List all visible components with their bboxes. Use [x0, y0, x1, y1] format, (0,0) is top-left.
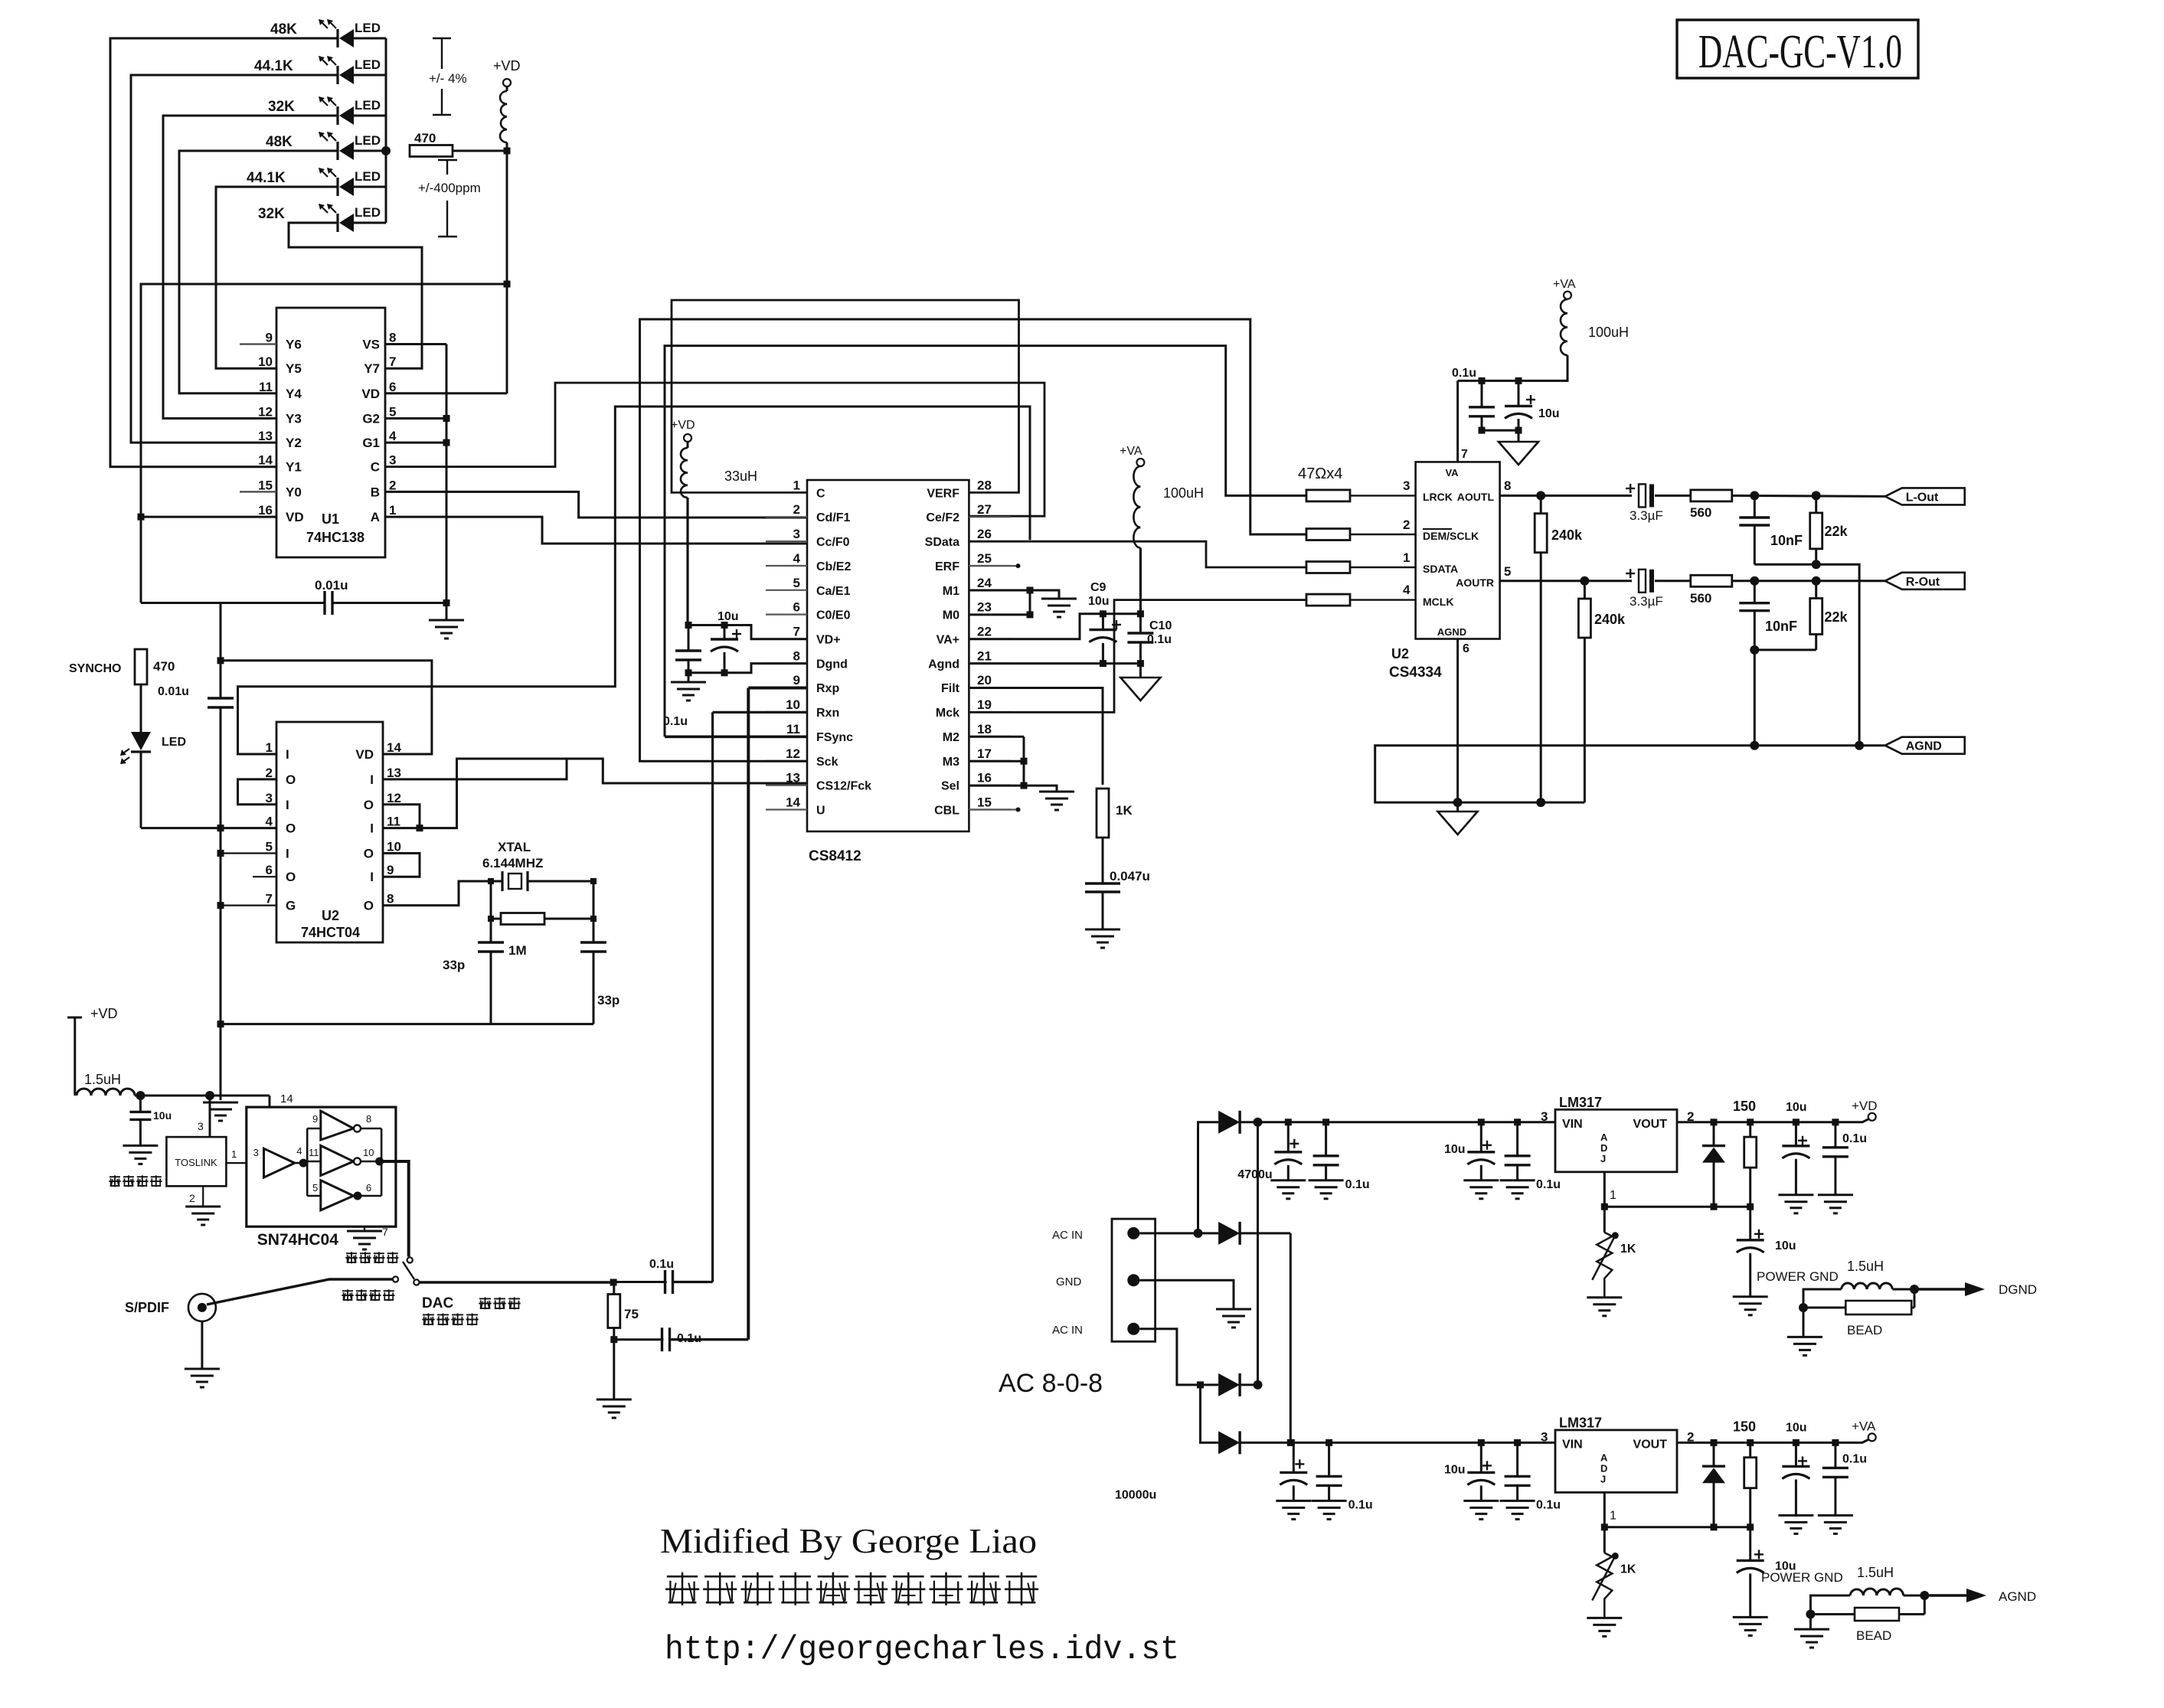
ground (U1 bypass): [429, 603, 464, 639]
text POWER GND (DGND): [1757, 1269, 1839, 1284]
resistor 1K (Filt): [1097, 789, 1133, 838]
svg-text:Y3: Y3: [286, 412, 302, 426]
capacitor 0.1u (a): [1316, 1442, 1373, 1511]
capacitor 10u (VD+): [711, 610, 741, 673]
svg-text:AGND: AGND: [1999, 1589, 2036, 1604]
svg-text:1.5uH: 1.5uH: [1857, 1565, 1894, 1580]
regulator LM317: [1541, 1095, 1694, 1172]
wire U2 pin13 riser: [383, 759, 567, 779]
op-amp U2 CS4334 body: [1416, 462, 1500, 638]
ferrite BEAD (AGND): [1806, 1591, 1929, 1643]
wire Y1 to 48K row1: [110, 38, 276, 467]
inductor 1.5uH: [77, 1072, 135, 1096]
svg-text:7: 7: [382, 1226, 388, 1238]
capacitor 0.047u: [1085, 838, 1150, 929]
wire to 560 L: [1655, 495, 1691, 497]
svg-text:3.3µF: 3.3µF: [1630, 508, 1663, 523]
svg-text:LED: LED: [355, 57, 381, 72]
terminal +VA: [1852, 1419, 1876, 1441]
svg-text:BEAD: BEAD: [1847, 1323, 1882, 1337]
+VA terminal (CS8412): [1120, 445, 1144, 466]
svg-text:C0/E0: C0/E0: [816, 609, 851, 622]
op-amp U1 74HC138 body: [276, 308, 385, 557]
svg-text:4: 4: [1403, 583, 1411, 597]
resistor 75: [608, 1282, 639, 1343]
CS4334 labels: [1423, 467, 1494, 638]
wire VA pin7: [1456, 380, 1459, 462]
svg-text:25: 25: [977, 551, 992, 566]
wire switch to input network: [420, 1279, 617, 1286]
svg-text:10nF: 10nF: [1765, 619, 1797, 634]
svg-text:O: O: [286, 870, 296, 884]
svg-text:+VA: +VA: [1120, 445, 1142, 458]
svg-text:Y1: Y1: [286, 460, 302, 475]
svg-text:8: 8: [793, 648, 800, 663]
text 光纖輸入 (left): [109, 1175, 162, 1187]
wire Agnd rail: [969, 660, 1144, 667]
wire AGND low rail: [1375, 741, 1885, 807]
ground (10000u): [1276, 1501, 1311, 1519]
svg-text:240k: 240k: [1594, 612, 1626, 627]
svg-text:U: U: [816, 805, 825, 818]
connector AC 8-0-8: [1052, 1219, 1156, 1341]
wire VA+ rail: [969, 610, 1144, 639]
wire VA rail: [1458, 355, 1567, 384]
svg-text:3: 3: [1541, 1429, 1548, 1444]
svg-text:Y6: Y6: [286, 338, 302, 352]
ground (0.1u out): [1818, 1195, 1853, 1213]
wire VD6 to +VD: [385, 392, 507, 394]
svg-text:+VD: +VD: [90, 1006, 118, 1021]
svg-text:VERF: VERF: [927, 487, 959, 500]
svg-text:O: O: [286, 772, 296, 787]
annotation +/-400ppm: [418, 160, 481, 237]
svg-text:CS8412: CS8412: [809, 848, 861, 864]
resistor 47R (SDATA): [1306, 562, 1416, 573]
svg-text:+VA: +VA: [1553, 278, 1576, 291]
resistor 47R (MCLK): [1306, 594, 1416, 606]
capacitor 0.01u (U1 bypass): [315, 578, 348, 615]
wire ADJ: [1601, 1492, 1754, 1530]
wire 470 to +VD: [452, 148, 511, 155]
svg-text:10u: 10u: [1088, 595, 1110, 608]
svg-text:3: 3: [793, 527, 800, 541]
svg-text:Cd/F1: Cd/F1: [816, 511, 851, 524]
potentiometer 1K: [1592, 1527, 1636, 1618]
diode D2: [1218, 1222, 1240, 1245]
svg-text:O: O: [364, 798, 374, 812]
svg-text:Y2: Y2: [286, 436, 302, 450]
svg-text:M0: M0: [943, 609, 959, 622]
svg-text:U2: U2: [1391, 646, 1409, 661]
svg-text:9: 9: [793, 673, 800, 687]
ground (0.1u c): [1500, 1181, 1535, 1199]
svg-text:6: 6: [266, 863, 273, 877]
svg-text:DAC: DAC: [422, 1295, 453, 1311]
wire Dgnd rail: [685, 664, 808, 677]
wire R filter gnd: [1750, 645, 1816, 746]
ground (10u toslink): [123, 1145, 158, 1164]
ground (0.047u): [1085, 929, 1120, 948]
wire AGND pin6: [1456, 639, 1459, 803]
svg-text:48K: 48K: [266, 134, 293, 150]
svg-text:7: 7: [266, 892, 273, 906]
svg-text:AGND: AGND: [1906, 740, 1942, 753]
wire L filter gnd: [1754, 560, 1859, 745]
svg-text:I: I: [286, 747, 289, 762]
svg-text:I: I: [370, 772, 374, 787]
svg-text:560: 560: [1690, 505, 1711, 520]
capacitor 10u (out): [1782, 1421, 1809, 1515]
svg-text:24: 24: [977, 576, 992, 590]
capacitor 10u (adj): [1737, 1527, 1796, 1618]
wire U1.B to CS8412 pin2: [385, 491, 807, 518]
svg-text:4700u: 4700u: [1237, 1168, 1272, 1181]
wire SYNCHO to LED: [140, 684, 142, 732]
resistor 22k R: [1810, 581, 1849, 650]
LED D7 (SYNCHO): [120, 732, 186, 764]
svg-text:0.1u: 0.1u: [1452, 367, 1476, 380]
wire sample-rate LED row 3: [163, 115, 386, 117]
wire Rxn: [713, 712, 807, 1282]
svg-text:10u: 10u: [1444, 1463, 1466, 1476]
ground (0.1u a): [1309, 1181, 1344, 1199]
svg-text:0.1u: 0.1u: [1348, 1498, 1373, 1511]
wire ADJ: [1601, 1172, 1754, 1210]
svg-text:3: 3: [1403, 478, 1410, 493]
svg-text:1M: 1M: [508, 943, 527, 958]
wire LED to U2 pin4: [141, 752, 276, 831]
svg-text:LRCK: LRCK: [1423, 491, 1453, 503]
svg-text:47Ωx4: 47Ωx4: [1298, 465, 1342, 482]
svg-text:LED: LED: [355, 98, 381, 113]
svg-text:D: D: [1600, 1462, 1607, 1474]
wire 560R to tag: [1731, 576, 1885, 586]
ground (10u b): [1463, 1501, 1499, 1519]
wire U1.C riser loop to CS8412 pin27: [385, 383, 1044, 516]
svg-text:14: 14: [387, 740, 401, 755]
svg-text:560: 560: [1690, 591, 1711, 606]
svg-text:CBL: CBL: [934, 805, 959, 818]
svg-text:1: 1: [266, 740, 273, 755]
wire sample-rate LED row 1: [110, 38, 386, 40]
svg-text:VD: VD: [286, 510, 304, 524]
wire sample-rate LED row 2: [131, 74, 386, 77]
svg-text:Dgnd: Dgnd: [816, 658, 848, 671]
svg-text:19: 19: [977, 697, 992, 712]
wire sample-rate LED row 6: [289, 222, 386, 224]
svg-text:Y7: Y7: [364, 361, 380, 376]
title box DAC-GC-V1.0: [1677, 20, 1918, 78]
svg-text:33uH: 33uH: [724, 469, 757, 484]
text chinese site name: [665, 1572, 1038, 1605]
wire Sck riser: [640, 319, 1307, 761]
svg-text:13: 13: [387, 766, 401, 780]
svg-text:8: 8: [389, 331, 396, 345]
svg-text:6: 6: [389, 380, 396, 394]
svg-text:8: 8: [1504, 478, 1511, 493]
svg-text:CS12/Fck: CS12/Fck: [816, 780, 871, 793]
wire toslink supply rail: [135, 1091, 293, 1107]
svg-text:R-Out: R-Out: [1906, 576, 1940, 589]
svg-text:1: 1: [1610, 1509, 1616, 1522]
svg-text:0.1u: 0.1u: [1842, 1452, 1867, 1465]
LED D6 (32K): [258, 204, 381, 232]
wire TOSLINK pin2 / ground: [185, 1186, 221, 1225]
svg-text:2: 2: [189, 1192, 195, 1204]
wire 100uH to VA+ rail: [1139, 548, 1142, 614]
svg-text:18: 18: [977, 722, 992, 736]
wire Y7 to 32K row6: [289, 223, 422, 368]
svg-text:22k: 22k: [1825, 524, 1849, 539]
svg-text:Y4: Y4: [286, 387, 302, 401]
svg-text:10u: 10u: [718, 610, 739, 623]
svg-text:10u: 10u: [1538, 407, 1560, 420]
svg-text:Sck: Sck: [816, 756, 838, 769]
svg-text:I: I: [286, 798, 289, 812]
svg-text:44.1K: 44.1K: [254, 58, 293, 74]
ground (10u adj): [1733, 1297, 1768, 1315]
resistor 240k L: [1535, 495, 1583, 802]
svg-text:U2: U2: [322, 908, 339, 923]
svg-text:0.1u: 0.1u: [1147, 633, 1172, 646]
inductor 100uH (CS8412): [1133, 466, 1204, 548]
wire M1/M0 to ground: [969, 587, 1077, 619]
connector S/PDIF: [125, 1294, 216, 1321]
wire U2 pin2-pin3 jog: [238, 779, 277, 805]
svg-text:14: 14: [258, 453, 273, 468]
svg-text:TOSLINK: TOSLINK: [175, 1157, 217, 1168]
svg-text:0.1u: 0.1u: [1842, 1132, 1867, 1145]
text Midified By George Liao: [660, 1521, 1037, 1560]
wire VOUT rail: [1750, 1439, 1868, 1446]
svg-text:Rxp: Rxp: [816, 682, 839, 695]
svg-text:Rxn: Rxn: [816, 707, 839, 720]
svg-text:0.01u: 0.01u: [158, 685, 189, 698]
svg-text:7: 7: [793, 625, 800, 639]
capacitor 10nF R: [1739, 581, 1797, 650]
svg-text:2: 2: [389, 478, 396, 492]
terminal +VD: [1852, 1099, 1878, 1121]
op-amp U2 74HCT04 body: [276, 722, 383, 942]
svg-text:6.144MHZ: 6.144MHZ: [482, 856, 543, 870]
svg-text:3.3µF: 3.3µF: [1630, 594, 1663, 609]
svg-text:VD+: VD+: [816, 634, 841, 647]
svg-text:10nF: 10nF: [1770, 533, 1803, 548]
svg-text:LED: LED: [355, 169, 381, 184]
capacitor 0.1u (c): [1505, 1122, 1561, 1191]
svg-text:VOUT: VOUT: [1633, 1118, 1668, 1131]
svg-text:D: D: [1600, 1142, 1607, 1154]
wire Filt to 1K: [969, 688, 1103, 785]
svg-text:O: O: [364, 847, 374, 861]
svg-text:+/-400ppm: +/-400ppm: [418, 181, 481, 195]
text DAC 輸入端: [422, 1295, 521, 1311]
svg-text:470: 470: [153, 659, 175, 674]
svg-text:M3: M3: [943, 756, 959, 769]
svg-text:J: J: [1600, 1473, 1606, 1484]
LED D1 (48K): [270, 19, 381, 47]
svg-text:+VD: +VD: [1852, 1099, 1878, 1113]
regulator LM317: [1541, 1415, 1694, 1492]
svg-text:16: 16: [977, 771, 992, 785]
svg-text:11: 11: [309, 1147, 319, 1158]
svg-text:11: 11: [387, 815, 400, 829]
svg-text:POWER GND: POWER GND: [1761, 1570, 1843, 1585]
capacitor 3.3uF L: [1626, 484, 1663, 523]
wire U2 pin5: [221, 852, 276, 854]
inverter D pins5-6: [312, 1181, 371, 1210]
svg-text:1: 1: [231, 1148, 237, 1160]
svg-text:22k: 22k: [1825, 609, 1849, 625]
+VD terminal (CS8412): [671, 419, 695, 442]
svg-text:MCLK: MCLK: [1423, 596, 1453, 608]
capacitor 10u (out): [1782, 1101, 1809, 1195]
svg-text:+VD: +VD: [493, 58, 521, 73]
ground (0.01u chain): [203, 1102, 238, 1121]
capacitor C9 10u: [1088, 581, 1121, 664]
svg-text:FSync: FSync: [816, 731, 853, 744]
wire U2 pin1 riser to CS8412 SData loop: [238, 407, 1031, 754]
wire Y5 to 44.1K row5: [216, 187, 276, 368]
svg-text:16: 16: [258, 503, 273, 518]
svg-text:6: 6: [793, 600, 800, 615]
text AC 8-0-8: [999, 1369, 1103, 1398]
svg-text:14: 14: [280, 1092, 293, 1105]
CS8412 label: [809, 848, 861, 864]
ground (AGND bead): [1794, 1615, 1829, 1648]
svg-text:5: 5: [266, 840, 273, 854]
inverter A pins3-4: [253, 1145, 308, 1177]
ground (0.1u c): [1500, 1501, 1535, 1519]
resistor 150: [1711, 1099, 1757, 1207]
svg-text:9: 9: [266, 331, 273, 345]
svg-text:12: 12: [258, 405, 273, 420]
svg-text:3: 3: [253, 1147, 259, 1158]
svg-text:74HC138: 74HC138: [306, 530, 364, 545]
wire sample-rate LED row 5: [216, 186, 386, 188]
wire Mck to 47R: [969, 600, 1306, 713]
svg-text:7: 7: [389, 354, 396, 369]
svg-text:LED: LED: [355, 21, 381, 35]
ground arrow (Agnd): [1120, 664, 1160, 701]
capacitor 0.1u (VD+): [663, 625, 701, 729]
wire inverter output bus: [361, 1128, 384, 1197]
svg-text:+/- 4%: +/- 4%: [429, 71, 467, 86]
47ohm x4 label: [1298, 465, 1342, 482]
svg-text:LM317: LM317: [1559, 1095, 1602, 1110]
LED D3 (32K): [268, 96, 381, 125]
svg-text:U1: U1: [322, 511, 339, 527]
wire S/PDIF to switch: [207, 1279, 393, 1305]
svg-text:DAC-GC-V1.0: DAC-GC-V1.0: [1698, 26, 1902, 78]
svg-text:15: 15: [977, 795, 992, 810]
inverter B pins9-8: [312, 1111, 371, 1140]
svg-text:SData: SData: [925, 536, 959, 549]
svg-text:VIN: VIN: [1562, 1438, 1583, 1451]
svg-text:Y5: Y5: [286, 361, 302, 376]
resistor 47R (DEM): [1306, 529, 1416, 540]
wire LED bus: [385, 38, 387, 223]
ground (AC): [1216, 1309, 1251, 1328]
svg-text:AGND: AGND: [1437, 626, 1466, 638]
capacitor 4700u: [1237, 1122, 1302, 1181]
svg-text:10u: 10u: [1444, 1143, 1466, 1156]
svg-text:1.5uH: 1.5uH: [1847, 1259, 1884, 1274]
svg-text:+VA: +VA: [1852, 1419, 1876, 1433]
ground (10u b): [1463, 1181, 1499, 1199]
capacitor 10u (VA CS4334): [1505, 380, 1560, 430]
svg-text:3: 3: [1541, 1109, 1548, 1124]
svg-text:8: 8: [387, 892, 394, 906]
svg-text:VA+: VA+: [937, 634, 959, 647]
svg-text:LED: LED: [355, 133, 381, 148]
svg-text:Ca/E1: Ca/E1: [816, 585, 851, 598]
svg-text:26: 26: [977, 527, 992, 541]
svg-text:100uH: 100uH: [1588, 325, 1629, 340]
svg-text:VA: VA: [1445, 467, 1459, 478]
svg-text:L-Out: L-Out: [1906, 491, 1939, 504]
svg-text:Ce/F2: Ce/F2: [926, 511, 959, 524]
svg-text:10u: 10u: [1775, 1239, 1796, 1252]
text POWER GND (AGND): [1761, 1570, 1843, 1585]
svg-text:POWER GND: POWER GND: [1757, 1269, 1839, 1284]
wire Y2 to 44.1K row2: [131, 75, 276, 443]
svg-text:A: A: [371, 510, 380, 524]
svg-text:12: 12: [387, 791, 401, 805]
svg-text:4: 4: [266, 815, 273, 829]
svg-text:3: 3: [266, 791, 273, 805]
wire D1+D3 tie: [1240, 1118, 1262, 1390]
capacitor 0.1u (c): [1505, 1442, 1561, 1511]
wire VERF loop to C pin1: [672, 300, 1019, 492]
wire U2 pin11 to CS8412 CS12: [383, 759, 807, 828]
diode D1: [1218, 1111, 1240, 1134]
svg-text:5: 5: [389, 405, 396, 420]
wire sample-rate LED row 4: [179, 150, 386, 152]
wire inverter input bus: [307, 1128, 321, 1196]
CS4334 pin numbers: [1403, 448, 1511, 655]
svg-text:I: I: [370, 870, 374, 884]
wire CBL stub: [969, 808, 1020, 812]
resistor 560 R: [1690, 575, 1732, 606]
svg-text:5: 5: [793, 576, 800, 590]
text url: [665, 1631, 1179, 1669]
svg-text:1: 1: [793, 478, 800, 492]
svg-text:3: 3: [198, 1120, 204, 1132]
wire U2 pin6 stub: [253, 876, 276, 877]
svg-text:VD: VD: [361, 387, 380, 401]
capacitor 0.1u (VA CS4334): [1452, 367, 1495, 430]
svg-text:100uH: 100uH: [1163, 485, 1204, 501]
svg-text:2: 2: [793, 502, 800, 517]
inductor 1.5uH (DGND): [1842, 1259, 1893, 1289]
svg-text:1K: 1K: [1620, 1243, 1636, 1256]
crystal XTAL 6.144MHZ: [482, 840, 593, 891]
svg-text:21: 21: [977, 648, 992, 663]
wire U2 pin14 to bypass chain: [217, 657, 432, 754]
svg-text:M1: M1: [943, 585, 959, 598]
wire rail to VIN: [1288, 1439, 1555, 1446]
svg-text:0.1u: 0.1u: [677, 1332, 701, 1345]
svg-text:Agnd: Agnd: [928, 658, 959, 671]
diode (LM317 protect): [1677, 1122, 1725, 1207]
svg-text:1: 1: [1610, 1189, 1616, 1202]
capacitor 10000u: [1115, 1442, 1307, 1501]
capacitor 33p left: [443, 878, 504, 1024]
U2 pin labels: [266, 740, 402, 913]
svg-text:O: O: [286, 821, 296, 836]
